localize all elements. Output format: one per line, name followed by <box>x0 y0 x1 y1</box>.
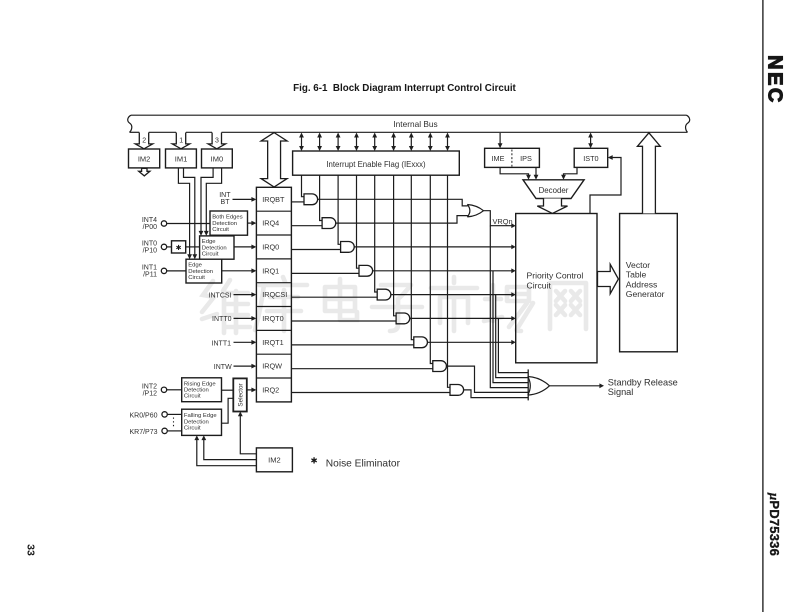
svg-text:Detection: Detection <box>212 221 237 227</box>
svg-text:Decoder: Decoder <box>539 186 569 195</box>
svg-text:IPS: IPS <box>520 154 532 163</box>
wire falling edge to selector <box>222 398 234 423</box>
svg-text:IME: IME <box>492 154 505 163</box>
svg-text:INT: INT <box>219 192 231 199</box>
small hollow arrow below IM2 <box>139 168 150 176</box>
falling edge detection circuit box <box>182 409 222 435</box>
feedback wire priority control to IST0 <box>590 158 621 214</box>
wire IME to decoder <box>500 167 528 177</box>
branch IRQ1 to standby OR <box>493 271 528 383</box>
IE double arrow 4 <box>356 135 358 149</box>
interrupt enable flag box <box>293 151 460 175</box>
svg-text:BT: BT <box>221 199 231 206</box>
double arrow bus to IST0 <box>590 135 592 147</box>
flag wire IRQ1 <box>291 272 359 274</box>
wire edge detector to IRQ0 <box>234 246 253 248</box>
wire INTW to IRQW <box>234 365 253 367</box>
edge detection circuit box INT0 <box>200 236 234 259</box>
bus-to-IM0 hollow arrow <box>208 133 225 149</box>
wire IM1 bit2 to INT1 edge detector <box>184 168 195 257</box>
svg-text:Circuit: Circuit <box>212 227 229 233</box>
hollow arrow vector table to bus <box>637 133 660 214</box>
flag wire IRQT0 <box>291 320 396 322</box>
wire KR0 to falling edge detector <box>167 413 181 415</box>
priority control circuit box <box>516 214 597 363</box>
svg-text:Fig. 6-1 Block Diagram Interr: Fig. 6-1 Block Diagram Interrupt Control… <box>293 83 516 94</box>
AND gate IRQ2 <box>450 385 464 396</box>
wire INTT1 to IRQT1 <box>234 341 253 343</box>
register IM1 <box>166 149 197 168</box>
svg-text:IRQBT: IRQBT <box>262 195 285 204</box>
svg-text:✱: ✱ <box>176 243 182 252</box>
svg-text:Falling Edge: Falling Edge <box>184 413 217 419</box>
svg-text:IM2: IM2 <box>268 456 281 465</box>
IE double arrow 3 <box>337 135 339 149</box>
AND gate IRQCSI <box>377 289 391 300</box>
wire IM2 to falling edge detector b <box>197 438 257 466</box>
wire IRQ4 gate to OR <box>336 216 468 224</box>
IE enable wire 7 <box>411 175 414 340</box>
AND gate IRQ0 <box>341 242 355 253</box>
register IM0 <box>202 149 233 168</box>
IE enable wire 2 <box>320 175 323 220</box>
terminal circle INT1 <box>161 268 166 273</box>
decoder <box>523 180 584 199</box>
svg-text:KR0/P60: KR0/P60 <box>129 412 157 419</box>
flag wire IRQCSI <box>291 296 377 298</box>
svg-text:IM1: IM1 <box>175 155 188 164</box>
OR gate body <box>528 377 550 396</box>
svg-text:Edge: Edge <box>202 239 216 245</box>
svg-text:Both Edges: Both Edges <box>212 215 243 221</box>
svg-text:VRQn: VRQn <box>493 217 513 226</box>
bus-to-IM1 hollow arrow <box>172 133 189 149</box>
flag wire IRQ0 <box>291 249 340 251</box>
svg-text:Circuit: Circuit <box>202 252 219 258</box>
IE enable wire 1 <box>302 175 305 197</box>
svg-text:μPD75336: μPD75336 <box>767 492 782 556</box>
svg-text:Detection: Detection <box>184 388 209 394</box>
watermark (light gray CJK characters, drawn as strokes) <box>202 277 586 333</box>
AND gate IRQ4 <box>322 218 336 229</box>
svg-text:Selector: Selector <box>237 383 244 406</box>
IE enable wire 8 <box>430 175 433 363</box>
svg-text:KR7/P73: KR7/P73 <box>129 429 157 436</box>
svg-text:Table: Table <box>626 270 647 280</box>
wire INTT0 to IRQT0 <box>234 317 253 319</box>
IE double arrow 2 <box>319 135 321 149</box>
OR gate VRQ <box>467 205 483 217</box>
wire INT1 to edge detector <box>167 270 186 272</box>
bus-to-IM2 hollow arrow <box>135 133 152 149</box>
AND gate IRQBT <box>304 194 318 205</box>
wire noise eliminator to edge detector <box>186 246 200 248</box>
rising edge detection circuit box <box>182 378 222 402</box>
wire IM2 to selector <box>240 414 256 454</box>
register IST0 <box>574 148 608 167</box>
register IME/IPS <box>485 148 540 167</box>
wire IRQT0 gate to priority control <box>410 317 513 319</box>
wire both-edges to IRQ4 <box>248 222 253 224</box>
wire INT BT to IRQBT <box>233 198 253 200</box>
AND gate IRQT1 <box>414 337 428 348</box>
IRQ register column <box>256 187 291 402</box>
hollow arrow decoder to priority control <box>537 199 567 214</box>
IE enable wire 4 <box>357 175 360 268</box>
wire IM2 to falling edge detector a <box>204 438 257 460</box>
terminal circle INT0 <box>161 244 166 249</box>
svg-text:IRQ0: IRQ0 <box>262 243 279 252</box>
terminal circle INT4 <box>161 221 166 226</box>
noise eliminator box (asterisk) <box>172 241 186 253</box>
svg-text:1: 1 <box>179 138 183 145</box>
svg-text:/P12: /P12 <box>143 391 158 398</box>
wire VRQn to priority control <box>484 211 513 226</box>
IE double arrow 1 <box>301 135 303 149</box>
IE double arrow 7 <box>410 135 412 149</box>
AND gates and wiring <box>291 175 528 397</box>
wire edge detector to IRQ1 <box>222 270 253 272</box>
wire INT0 to noise eliminator <box>167 246 172 248</box>
edge detection circuit box INT1 <box>186 259 222 283</box>
both edges detection circuit box <box>210 211 248 235</box>
svg-text:IRQT1: IRQT1 <box>262 338 284 347</box>
svg-text:Detection: Detection <box>202 245 227 251</box>
svg-text:INTT1: INTT1 <box>212 340 232 347</box>
svg-text:/P11: /P11 <box>143 272 157 279</box>
left side inputs and detectors <box>142 192 257 371</box>
wire INT2 to rising edge detector <box>167 389 182 391</box>
flag wire IRQ4 <box>291 225 322 227</box>
IE double arrow 5 <box>374 135 376 149</box>
flag wire IRQT1 <box>291 344 413 346</box>
svg-text:/P00: /P00 <box>143 224 158 231</box>
flag wire IRQ2 <box>291 392 450 394</box>
wire rising edge to selector <box>222 389 234 391</box>
vector table address generator box <box>620 214 678 352</box>
svg-text:Circuit: Circuit <box>184 426 201 432</box>
svg-text:Address: Address <box>626 279 658 289</box>
AND gate IRQT0 <box>396 313 410 324</box>
OR input bar <box>527 369 529 400</box>
bottom IM2 and selector section <box>129 378 400 472</box>
IE enable wire 3 <box>338 175 341 244</box>
internal bus <box>128 115 690 132</box>
IE double arrow 6 <box>393 135 395 149</box>
svg-text:IRQW: IRQW <box>262 362 282 371</box>
wire IM0 bit to INT0 edge detector <box>201 168 213 234</box>
svg-text:33: 33 <box>25 544 37 556</box>
svg-text:IM2: IM2 <box>138 155 151 164</box>
svg-text:3: 3 <box>215 138 219 145</box>
svg-text:IRQ1: IRQ1 <box>262 266 279 275</box>
svg-text:IRQT0: IRQT0 <box>262 314 284 323</box>
svg-text:Interrupt Enable Flag (IExxx): Interrupt Enable Flag (IExxx) <box>326 160 426 169</box>
wire IRQCSI gate to priority control <box>391 294 513 296</box>
svg-text:Generator: Generator <box>626 289 665 299</box>
wire selector to IRQ2 <box>247 389 253 391</box>
svg-text:Priority Control: Priority Control <box>527 270 584 280</box>
IE enable wire 5 <box>375 175 378 292</box>
page border line right <box>762 0 764 612</box>
svg-text:✱: ✱ <box>310 455 317 465</box>
svg-text:NEC: NEC <box>764 55 786 105</box>
big double-headed hollow arrow bus to IRQ registers <box>261 133 287 187</box>
IE double arrow 8 <box>429 135 431 149</box>
svg-text:Circuit: Circuit <box>184 394 201 400</box>
branch VRQn to standby OR <box>490 226 528 388</box>
AND gate IRQ1 <box>359 265 373 276</box>
wire IM1 bit to INT1 edge detector <box>178 168 189 257</box>
wire KR7 to falling edge detector <box>167 430 181 432</box>
svg-text:2: 2 <box>142 138 146 145</box>
wire IPS to decoder <box>535 167 537 177</box>
wire standby release output <box>550 385 601 387</box>
standby release OR gate <box>528 369 678 400</box>
svg-text:Vector: Vector <box>626 260 651 270</box>
wire INTCSI to IRQCSI <box>234 294 253 296</box>
svg-text:INT4: INT4 <box>142 217 157 224</box>
svg-text:IST0: IST0 <box>583 154 598 163</box>
svg-text:Detection: Detection <box>188 269 213 275</box>
wire IRQ2 gate to standby OR <box>464 390 529 398</box>
register IM2 <box>129 149 160 168</box>
terminal circle INT2 <box>161 387 166 392</box>
svg-text:INT1: INT1 <box>142 264 157 271</box>
nine bus/IE-flag double arrows <box>299 133 450 152</box>
svg-text:INTW: INTW <box>214 364 232 371</box>
svg-text:IRQ4: IRQ4 <box>262 219 279 228</box>
svg-text:Circuit: Circuit <box>188 275 205 281</box>
branch IRQCSI to standby OR <box>496 295 529 378</box>
wire IST0 to decoder <box>564 167 578 177</box>
svg-text:Detection: Detection <box>184 419 209 425</box>
wire IRQT1 gate to priority control <box>427 341 512 343</box>
wire INT4 to both-edges detector <box>167 223 210 225</box>
svg-text:Noise Eliminator: Noise Eliminator <box>326 458 401 469</box>
selector box <box>233 378 247 411</box>
wire IRQ0 gate to priority control <box>354 246 512 248</box>
wire IRQW gate to standby OR <box>446 366 528 392</box>
IE enable wire 6 <box>394 175 397 316</box>
svg-text:Rising Edge: Rising Edge <box>184 381 216 387</box>
wire IRQBT gate to OR <box>318 199 468 206</box>
wire IM0 bit2 to INT0 edge detector <box>206 168 221 234</box>
wire bus to IME <box>499 133 501 146</box>
wire IRQ1 gate to priority control <box>373 270 513 272</box>
register IM2 (bottom) <box>256 448 292 472</box>
svg-text:IRQ2: IRQ2 <box>262 386 279 395</box>
IE double arrow 9 <box>447 135 449 149</box>
flag wire IRQBT <box>291 201 304 203</box>
terminal circle KR7 <box>162 428 167 433</box>
svg-text:INT2: INT2 <box>142 383 157 390</box>
svg-text:Signal: Signal <box>608 387 634 397</box>
IE enable wire 9 <box>448 175 451 387</box>
dotted ellipsis between KR inputs <box>173 418 175 429</box>
flag wire IRQW <box>291 368 432 370</box>
svg-text:Edge: Edge <box>188 263 202 269</box>
AND gate IRQW <box>433 361 447 372</box>
svg-text:IM0: IM0 <box>211 155 224 164</box>
svg-text:/P10: /P10 <box>143 248 158 255</box>
hollow arrow priority control to vector table <box>598 264 619 293</box>
svg-text:Internal Bus: Internal Bus <box>393 119 437 129</box>
branch IRQT0 to standby OR <box>498 318 528 372</box>
svg-text:INT0: INT0 <box>142 240 157 247</box>
terminal circle KR0 <box>162 412 167 417</box>
